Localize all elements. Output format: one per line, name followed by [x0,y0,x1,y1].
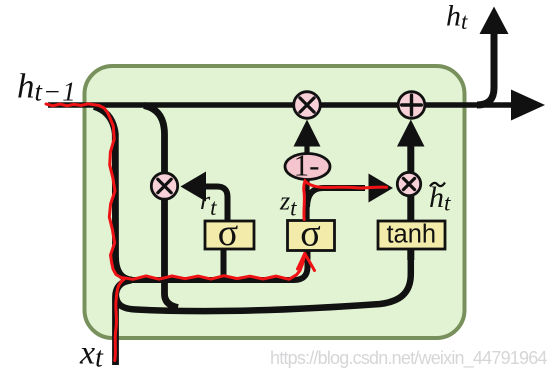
red trace: x_t input path [115,280,124,361]
svg-text:tanh: tanh [386,221,436,249]
wire: x_t vertical joining concat bus [116,280,132,365]
gate box: tanh [378,221,445,249]
svg-text:xt: xt [79,335,104,374]
wire: sigma r input stub [221,250,227,280]
node: 1- ellipse [285,154,330,180]
wire: r-gate vertical (h branch through multiply) [144,106,178,308]
wire: h_t upward branch [477,33,494,105]
arrowhead: r_t into multiply [181,172,207,202]
gate box: sigma r [205,221,254,249]
red trace: z_t output path [304,181,387,220]
wire: sigma r output hook [206,187,228,222]
wire: tanh vertical to add [407,146,414,260]
wire: main h line (h_t-1 to output) [48,102,512,108]
node: add on main line [398,92,425,119]
arrowhead: z_t into h-tilde multiply [369,174,394,203]
arrowhead: h_t up output [480,7,509,35]
wire: lower bus to tanh [116,251,411,311]
node: multiply h-tilde [397,172,420,195]
arrowhead: 1-z into multiply on main line [294,120,321,147]
svg-text:ht: ht [446,0,468,34]
wire: upper concat bus to sigma gates [129,251,308,280]
GRU cell body (green rounded box) [85,66,465,338]
svg-text:https://blog.csdn.net/weixin_4: https://blog.csdn.net/weixin_44791964 [270,348,547,369]
wire: left vertical (h branch down + x_t input) [94,107,132,281]
wire: z_t right branch [307,188,365,207]
svg-text:σ: σ [218,212,238,254]
red trace: hand-drawn arrowhead at sigma z [298,254,315,271]
node: multiply r gate [151,173,177,199]
svg-text:1-: 1- [294,148,320,183]
arrowhead: into add node [397,120,425,147]
arrowhead: h_t right output [511,90,545,121]
wire: z vertical through 1- [304,146,309,221]
node: multiply on main line [294,92,321,119]
red trace: h_t-1 path into sigma z [46,104,305,279]
svg-text:ht−1: ht−1 [17,67,77,107]
gate box: sigma z [288,221,335,251]
